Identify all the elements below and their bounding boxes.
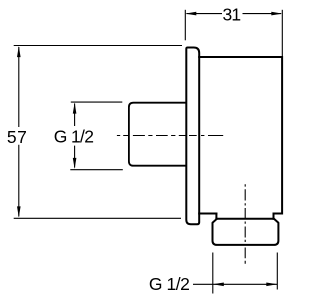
svg-text:31: 31 — [223, 5, 242, 25]
svg-text:57: 57 — [7, 127, 27, 147]
svg-text:G 1/2: G 1/2 — [54, 126, 94, 146]
svg-text:G 1/2: G 1/2 — [149, 274, 190, 294]
